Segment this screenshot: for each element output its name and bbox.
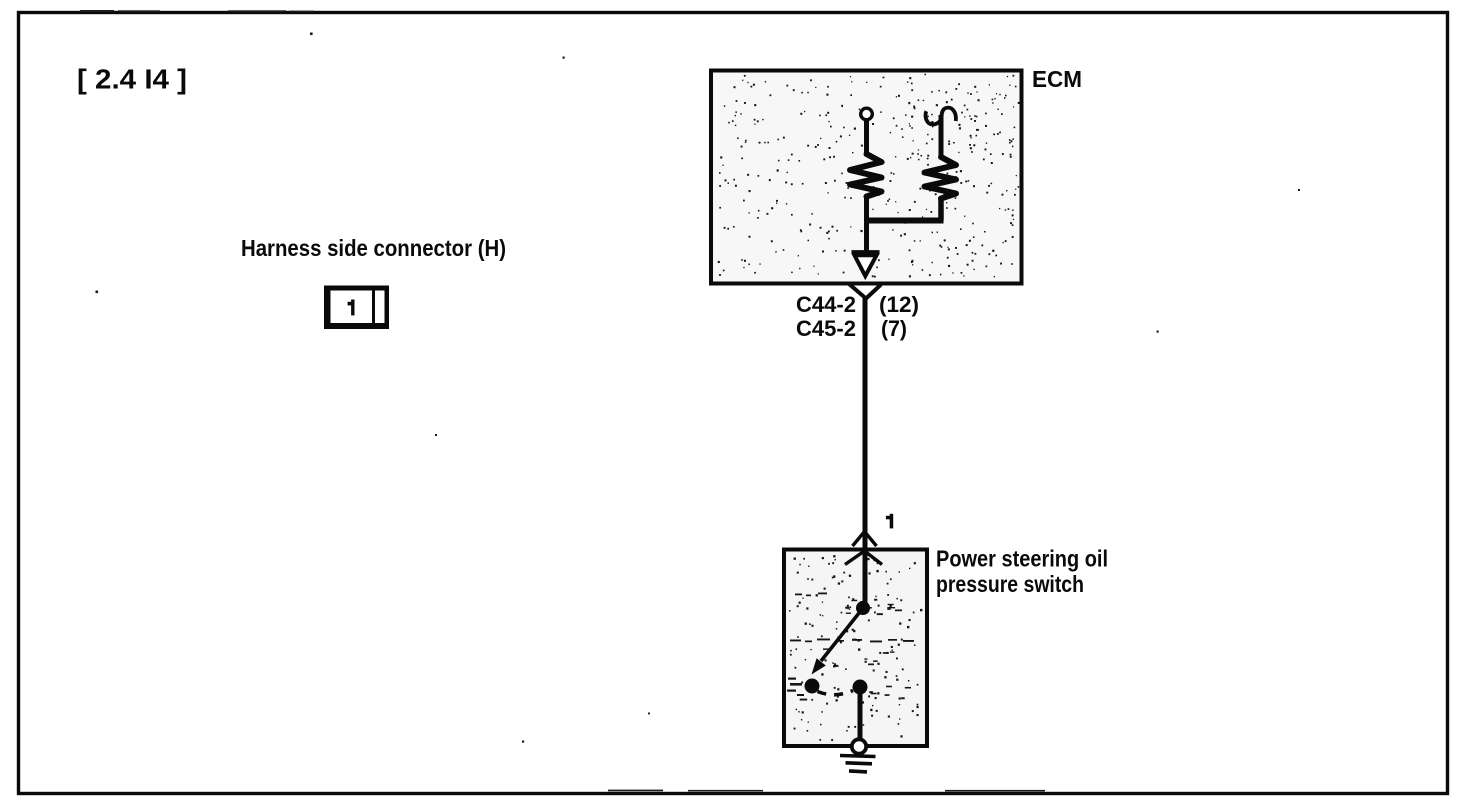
connector chevron above switch box [853, 532, 877, 547]
wire from right contact to ground terminal [858, 687, 863, 741]
pin 1 label at switch [886, 514, 893, 529]
harness side connector box [324, 286, 389, 330]
svg-text:Power steering oil: Power steering oil [936, 546, 1108, 572]
ground terminal circle [852, 739, 866, 753]
wire from R2 down to joint [938, 198, 944, 221]
resistor R2 [925, 157, 957, 199]
svg-text:(12): (12) [879, 292, 919, 317]
svg-text:pressure switch: pressure switch [936, 571, 1084, 597]
pin 1 label in connector box [348, 300, 355, 316]
main harness wire ECM to switch upper contact [863, 296, 868, 608]
switch right contact dot [853, 680, 868, 695]
coil hook at top of right branch [926, 108, 956, 125]
svg-text:[ 2.4 I4 ]: [ 2.4 I4 ] [77, 64, 187, 95]
wire joint, horizontal tie [864, 218, 944, 224]
switch box: Power steering oil pressure switch [784, 550, 927, 747]
terminal circle, left pull-up input [861, 108, 873, 120]
ground symbol [840, 756, 876, 772]
connector chevron inside switch box [845, 551, 882, 565]
svg-text:(7): (7) [881, 316, 907, 341]
svg-text:ECM: ECM [1032, 66, 1082, 92]
svg-text:Harness side connector (H): Harness side connector (H) [241, 235, 506, 261]
dashed travel arc [818, 691, 854, 695]
wire from terminal to R1 [864, 120, 869, 155]
svg-text:C45-2: C45-2 [796, 316, 856, 341]
resistor R1 [850, 154, 882, 197]
internal ground arrow triangle [855, 255, 877, 276]
switch arm [821, 608, 863, 661]
wire from R1 to internal ground arrow [864, 196, 869, 251]
svg-text:C44-2: C44-2 [796, 292, 856, 317]
switch lower-left contact dot [805, 679, 820, 694]
switch arm arrowhead [812, 658, 826, 674]
internal ground arrow bar [852, 250, 880, 253]
switch upper contact dot [856, 601, 870, 615]
ECM box U1 [711, 71, 1022, 284]
wire from hook to R2 [939, 115, 944, 158]
connector chevron C44-2/C45-2 below ECM [849, 284, 882, 299]
